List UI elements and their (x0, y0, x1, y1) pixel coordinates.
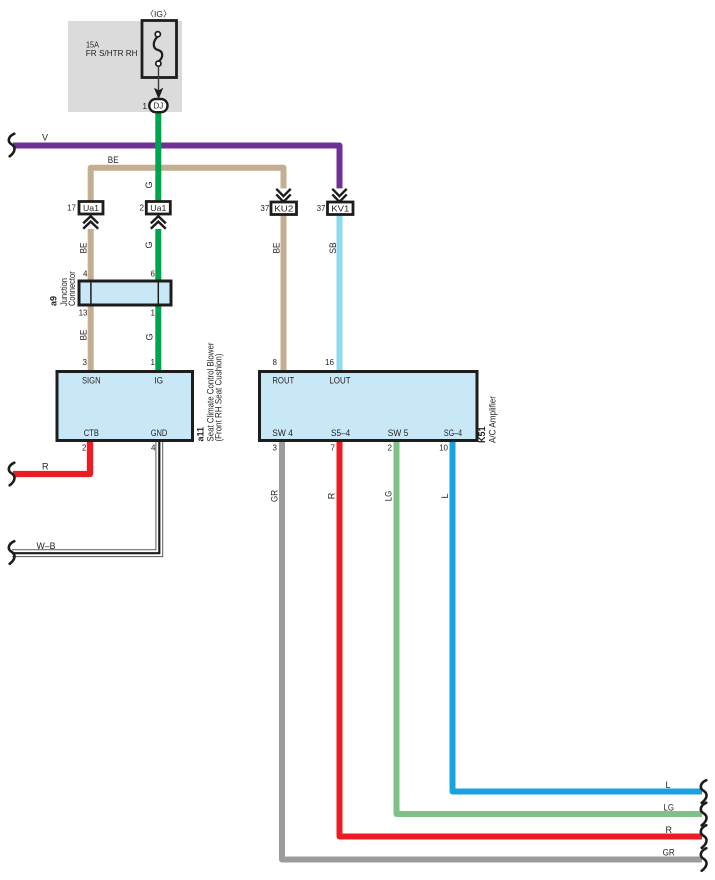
svg-text:GR: GR (663, 848, 676, 858)
svg-text:BE: BE (272, 243, 282, 254)
svg-text:Ua1: Ua1 (150, 203, 166, 213)
svg-text:1: 1 (143, 102, 148, 111)
svg-text:SB: SB (328, 242, 338, 253)
svg-text:2: 2 (82, 444, 87, 453)
wire L blue from K51 SG-4 to right edge (453, 438, 703, 792)
svg-text:3: 3 (83, 358, 88, 367)
svg-text:1: 1 (151, 358, 156, 367)
svg-text:SW 5: SW 5 (388, 428, 409, 438)
svg-text:SIGN: SIGN (82, 375, 101, 385)
continuation squiggle L right (701, 780, 707, 803)
continuation squiggle R right (701, 825, 707, 848)
junction partition lines (91, 283, 158, 304)
connector 17 Ua1 (67, 202, 103, 230)
wire G green from fuse DJ to Ua1 (155, 104, 161, 203)
svg-text:R: R (327, 492, 337, 499)
wire W-B white/black from a11 GND to left edge (12, 438, 156, 550)
fuse block gray background (68, 21, 182, 112)
wire R red from K51 S5-4 to right edge (340, 438, 703, 837)
svg-text:7: 7 (331, 444, 336, 453)
wire BE tan Ua1 to a11 SIGN (88, 228, 94, 372)
svg-text:G: G (144, 241, 154, 248)
svg-text:R: R (666, 825, 673, 835)
svg-text:LG: LG (384, 491, 394, 502)
svg-text:GND: GND (151, 428, 168, 438)
svg-text:(Front RH Seat Cushion): (Front RH Seat Cushion) (214, 354, 224, 442)
continuation squiggle W-B left (9, 541, 15, 564)
svg-text:IG: IG (154, 375, 163, 385)
connector 2 Ua1 (140, 202, 171, 230)
svg-text:a9: a9 (49, 296, 59, 306)
continuation squiggle LG right (701, 803, 707, 826)
svg-text:ROUT: ROUT (272, 375, 294, 385)
wire LG green from K51 SW5 to right edge (397, 438, 703, 814)
svg-text:BE: BE (79, 243, 89, 254)
svg-text:K51: K51 (477, 426, 487, 443)
svg-text:L: L (665, 780, 670, 790)
svg-text:BE: BE (79, 330, 89, 341)
svg-text:DJ: DJ (154, 102, 164, 111)
svg-text:L: L (440, 493, 450, 498)
svg-text:KV1: KV1 (331, 203, 349, 213)
continuation squiggle GR right (701, 848, 707, 871)
wire R red from a11 CTB to left edge (13, 438, 90, 474)
svg-text:LG: LG (663, 803, 674, 813)
svg-text:〈IG〉: 〈IG〉 (146, 9, 172, 19)
svg-text:KU2: KU2 (274, 203, 293, 213)
fuse 15A FR S/HTR RH box (142, 21, 177, 78)
block a11 Seat Climate Control Blower (57, 372, 193, 441)
svg-text:Ua1: Ua1 (83, 203, 99, 213)
svg-text:8: 8 (273, 358, 278, 367)
svg-text:LOUT: LOUT (329, 375, 351, 385)
svg-text:GR: GR (270, 490, 280, 503)
svg-text:G: G (145, 333, 155, 340)
svg-text:16: 16 (325, 358, 334, 367)
wire V purple horizontal then down to KV1 (13, 146, 340, 190)
svg-text:CTB: CTB (84, 428, 99, 438)
fuse element symbol (154, 36, 162, 61)
svg-text:4: 4 (151, 444, 156, 453)
svg-text:S5–4: S5–4 (331, 428, 350, 438)
wire BE tan KU2 to K51 ROUT (281, 213, 287, 372)
svg-text:Connector: Connector (67, 271, 77, 306)
svg-text:1: 1 (151, 308, 156, 317)
svg-text:G: G (144, 181, 154, 188)
wire G green Ua1 to a11 IG (155, 228, 161, 372)
continuation squiggle V left (9, 134, 15, 157)
svg-text:A/C Amplifier: A/C Amplifier (488, 396, 498, 443)
continuation squiggle R left (9, 463, 15, 486)
svg-text:6: 6 (151, 270, 156, 279)
connector DJ oval (149, 99, 167, 112)
svg-text:R: R (42, 461, 49, 471)
svg-text:SG–4: SG–4 (444, 428, 462, 438)
junction connector a9 box (79, 281, 171, 305)
connector 37 KU2 (260, 188, 296, 214)
svg-text:FR S/HTR RH: FR S/HTR RH (86, 49, 138, 58)
svg-text:13: 13 (79, 308, 88, 317)
svg-text:3: 3 (273, 444, 278, 453)
block K51 A/C Amplifier (260, 372, 478, 441)
wire SB lightblue KV1 to K51 LOUT (337, 213, 343, 372)
svg-text:37: 37 (260, 204, 269, 213)
svg-text:W–B: W–B (37, 541, 56, 551)
wire BE tan: down from Ua1, horizontal, down to KU2 (91, 168, 284, 203)
svg-text:SW 4: SW 4 (272, 428, 293, 438)
svg-text:4: 4 (83, 270, 88, 279)
svg-text:10: 10 (439, 444, 448, 453)
svg-text:a11: a11 (196, 427, 206, 442)
svg-text:V: V (42, 133, 48, 143)
svg-text:37: 37 (317, 204, 326, 213)
wire fuse to DJ with arrowhead (158, 67, 160, 97)
svg-text:2: 2 (388, 444, 393, 453)
svg-text:2: 2 (140, 203, 145, 212)
svg-text:BE: BE (108, 155, 119, 165)
wire GR gray from K51 SW4 to bottom right edge (282, 438, 702, 860)
connector 37 KV1 (317, 188, 353, 214)
svg-text:17: 17 (67, 203, 76, 212)
